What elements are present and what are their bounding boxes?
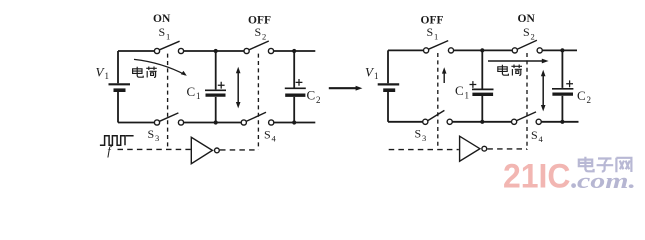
logo dot <box>571 183 576 188</box>
dashed control line S2/S4 <box>257 54 259 150</box>
dashed clock line horizontal (left) <box>118 148 191 150</box>
svg-text:C: C <box>307 88 316 103</box>
svg-text:2: 2 <box>531 32 535 42</box>
svg-text:2: 2 <box>587 95 592 105</box>
svg-text:1: 1 <box>374 71 379 81</box>
svg-text:ON: ON <box>153 13 171 25</box>
svg-text:C: C <box>187 84 196 99</box>
node: C1 top junction right ckt <box>480 48 484 52</box>
plus sign C1 left <box>218 82 225 89</box>
node: C1 top junction <box>214 49 218 53</box>
wire top-left segment (V1 top to S1) right ckt <box>388 50 423 83</box>
node: C2 bottom junction <box>292 120 296 124</box>
svg-text:1: 1 <box>196 91 201 101</box>
svg-text:1: 1 <box>105 71 110 81</box>
wire S2 to top-right end right ckt <box>542 49 577 51</box>
svg-text:3: 3 <box>422 133 426 143</box>
svg-text:1: 1 <box>166 32 170 42</box>
svg-text:ON: ON <box>518 13 536 25</box>
small up arrow near C1 right ckt <box>442 67 447 83</box>
switch S1 right ckt <box>424 41 454 53</box>
charge transfer double arrow (left) <box>236 67 241 109</box>
clock waveform symbol <box>100 136 134 146</box>
phase change arrow between circuits <box>329 86 363 91</box>
svg-text:1: 1 <box>465 90 470 100</box>
label charge (dian-he) right <box>498 65 522 76</box>
node: C2 bottom junction right ckt <box>560 120 564 124</box>
svg-text:21IC: 21IC <box>503 158 571 196</box>
label charge (dian-he) left <box>133 67 157 78</box>
dashed clock line horizontal right ckt <box>389 149 459 151</box>
svg-text:S: S <box>255 25 262 39</box>
switch S3 right ckt <box>423 110 453 124</box>
dashed inverter output line right ckt <box>487 148 527 150</box>
switch S4 right ckt <box>511 112 541 125</box>
plus sign C2 left <box>296 79 303 86</box>
charge flow curved arrow <box>134 59 187 75</box>
svg-text:S: S <box>148 127 155 141</box>
wire top-left segment (V1 top to S1) <box>118 51 154 83</box>
svg-text:3: 3 <box>155 133 159 143</box>
wire bottom-left segment right ckt <box>388 121 423 123</box>
svg-text:2: 2 <box>316 95 321 105</box>
svg-text:2: 2 <box>262 32 266 42</box>
switch S2 <box>244 41 274 54</box>
dashed control line S1/S3 right ckt <box>437 53 439 149</box>
svg-text:S: S <box>427 25 434 39</box>
node: C2 top junction right ckt <box>560 48 564 52</box>
svg-text:S: S <box>531 128 538 142</box>
node: C1 bottom junction right ckt <box>480 120 484 124</box>
plus sign C2 right ckt <box>566 80 573 87</box>
wire S4 to bottom-right end <box>274 122 315 124</box>
node: C2 top junction <box>292 49 296 53</box>
wire S1 to S2 <box>184 50 244 52</box>
dashed control line S1/S3 <box>167 54 169 149</box>
wire S3 to S4 <box>184 122 241 124</box>
wire S3 to S4 right ckt <box>452 121 511 123</box>
capacitor C1 right ckt <box>472 50 494 121</box>
capacitor C1 (left) <box>205 51 226 123</box>
svg-text:S: S <box>523 25 530 39</box>
charge transfer double arrow (right) <box>541 70 546 112</box>
svg-text:C: C <box>455 83 464 98</box>
switch S4 <box>241 112 274 125</box>
battery V1 right ckt <box>378 84 400 121</box>
svg-text:1: 1 <box>434 32 438 42</box>
inverter (right) <box>460 136 487 161</box>
logo text dianziwang <box>579 157 632 173</box>
svg-text:C: C <box>577 88 586 103</box>
svg-text:com.: com. <box>577 168 636 193</box>
plus sign C1 right ckt <box>470 81 477 88</box>
wire S4 to bottom-right end right ckt <box>541 121 578 123</box>
svg-text:S: S <box>264 127 271 141</box>
capacitor C2 (left) <box>285 51 306 123</box>
switch S1 <box>154 41 183 53</box>
dashed inverter output line (left) <box>220 149 258 151</box>
switch S2 right ckt <box>512 40 542 53</box>
node: C1 bottom junction <box>214 120 218 124</box>
wire S1 to S2 right ckt <box>454 49 512 51</box>
battery V1 <box>109 84 131 122</box>
svg-text:S: S <box>415 127 422 141</box>
charge flow straight arrow right ckt <box>488 59 549 64</box>
wire bottom-left segment <box>118 122 154 124</box>
capacitor C2 right ckt <box>552 50 573 121</box>
dashed control line S2/S4 right ckt <box>526 53 528 150</box>
svg-text:S: S <box>159 25 166 39</box>
inverter (left) <box>191 137 219 163</box>
switch S3 <box>154 113 183 125</box>
wire S2 right to top-right end <box>274 50 316 52</box>
